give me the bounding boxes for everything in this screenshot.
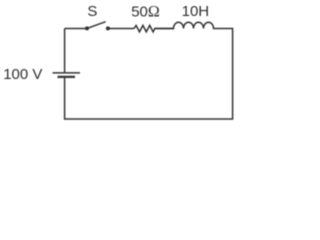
svg-text:100 V: 100 V (3, 66, 42, 83)
svg-text:S: S (87, 3, 97, 20)
svg-text:50Ω: 50Ω (131, 3, 160, 20)
svg-text:10H: 10H (182, 3, 210, 20)
